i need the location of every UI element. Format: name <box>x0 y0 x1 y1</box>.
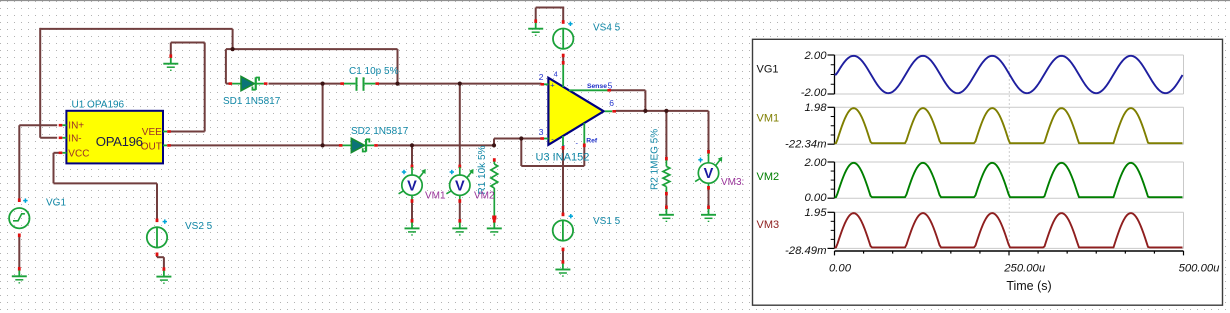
svg-text:2.00: 2.00 <box>804 50 828 62</box>
svg-text:VM2: VM2 <box>474 190 495 201</box>
svg-text:Sense: Sense <box>587 83 607 90</box>
svg-text:IN+: IN+ <box>68 121 84 132</box>
svg-text:VG1: VG1 <box>46 198 66 209</box>
svg-text:-22.34m: -22.34m <box>785 139 826 151</box>
svg-text:250.00u: 250.00u <box>1003 262 1046 274</box>
svg-text:V: V <box>455 178 465 194</box>
svg-text:2: 2 <box>539 72 544 82</box>
svg-text:5: 5 <box>608 81 613 91</box>
svg-text:3: 3 <box>539 127 544 137</box>
svg-text:OUT: OUT <box>141 142 162 153</box>
svg-text:1.95: 1.95 <box>805 207 828 219</box>
svg-text:R1 10k 5%: R1 10k 5% <box>477 145 488 194</box>
svg-text:U1 OPA196: U1 OPA196 <box>72 99 125 110</box>
svg-text:C1 10p 5%: C1 10p 5% <box>349 66 399 77</box>
svg-text:VS2 5: VS2 5 <box>185 221 213 232</box>
svg-text:VM1: VM1 <box>425 190 446 201</box>
svg-text:VM1: VM1 <box>757 113 780 125</box>
svg-text:VM3: VM3 <box>757 219 780 231</box>
svg-text:+: + <box>550 80 555 89</box>
svg-text:SD1 1N5817: SD1 1N5817 <box>223 96 281 107</box>
svg-text:VM2: VM2 <box>757 171 780 183</box>
svg-text:6: 6 <box>609 98 614 108</box>
svg-text:OPA196: OPA196 <box>96 134 143 149</box>
svg-text:-2.00: -2.00 <box>801 87 827 99</box>
svg-text:-28.49m: -28.49m <box>785 245 826 257</box>
svg-text:Time (s): Time (s) <box>1006 279 1051 293</box>
svg-text:1.98: 1.98 <box>805 102 828 114</box>
svg-text:VG1: VG1 <box>757 63 779 75</box>
svg-text:VEE: VEE <box>142 127 162 138</box>
svg-text:R2 1MEG 5%: R2 1MEG 5% <box>650 129 661 190</box>
svg-text:VS4 5: VS4 5 <box>593 23 621 34</box>
svg-text:0.00: 0.00 <box>829 262 852 274</box>
svg-text:0.00: 0.00 <box>805 192 828 204</box>
svg-text:IN-: IN- <box>68 134 81 145</box>
svg-text:4: 4 <box>554 70 558 79</box>
svg-text:VCC: VCC <box>68 148 89 159</box>
svg-text:VM3:: VM3: <box>721 177 744 188</box>
svg-text:Ref: Ref <box>586 137 598 144</box>
svg-text:SD2 1N5817: SD2 1N5817 <box>351 126 409 137</box>
svg-text:VS1 5: VS1 5 <box>593 216 621 227</box>
svg-text:500.00u: 500.00u <box>1179 262 1221 274</box>
svg-text:2.00: 2.00 <box>804 157 828 169</box>
svg-text:V: V <box>407 178 417 194</box>
svg-text:U3 INA152: U3 INA152 <box>536 151 590 163</box>
svg-text:V: V <box>704 166 714 182</box>
